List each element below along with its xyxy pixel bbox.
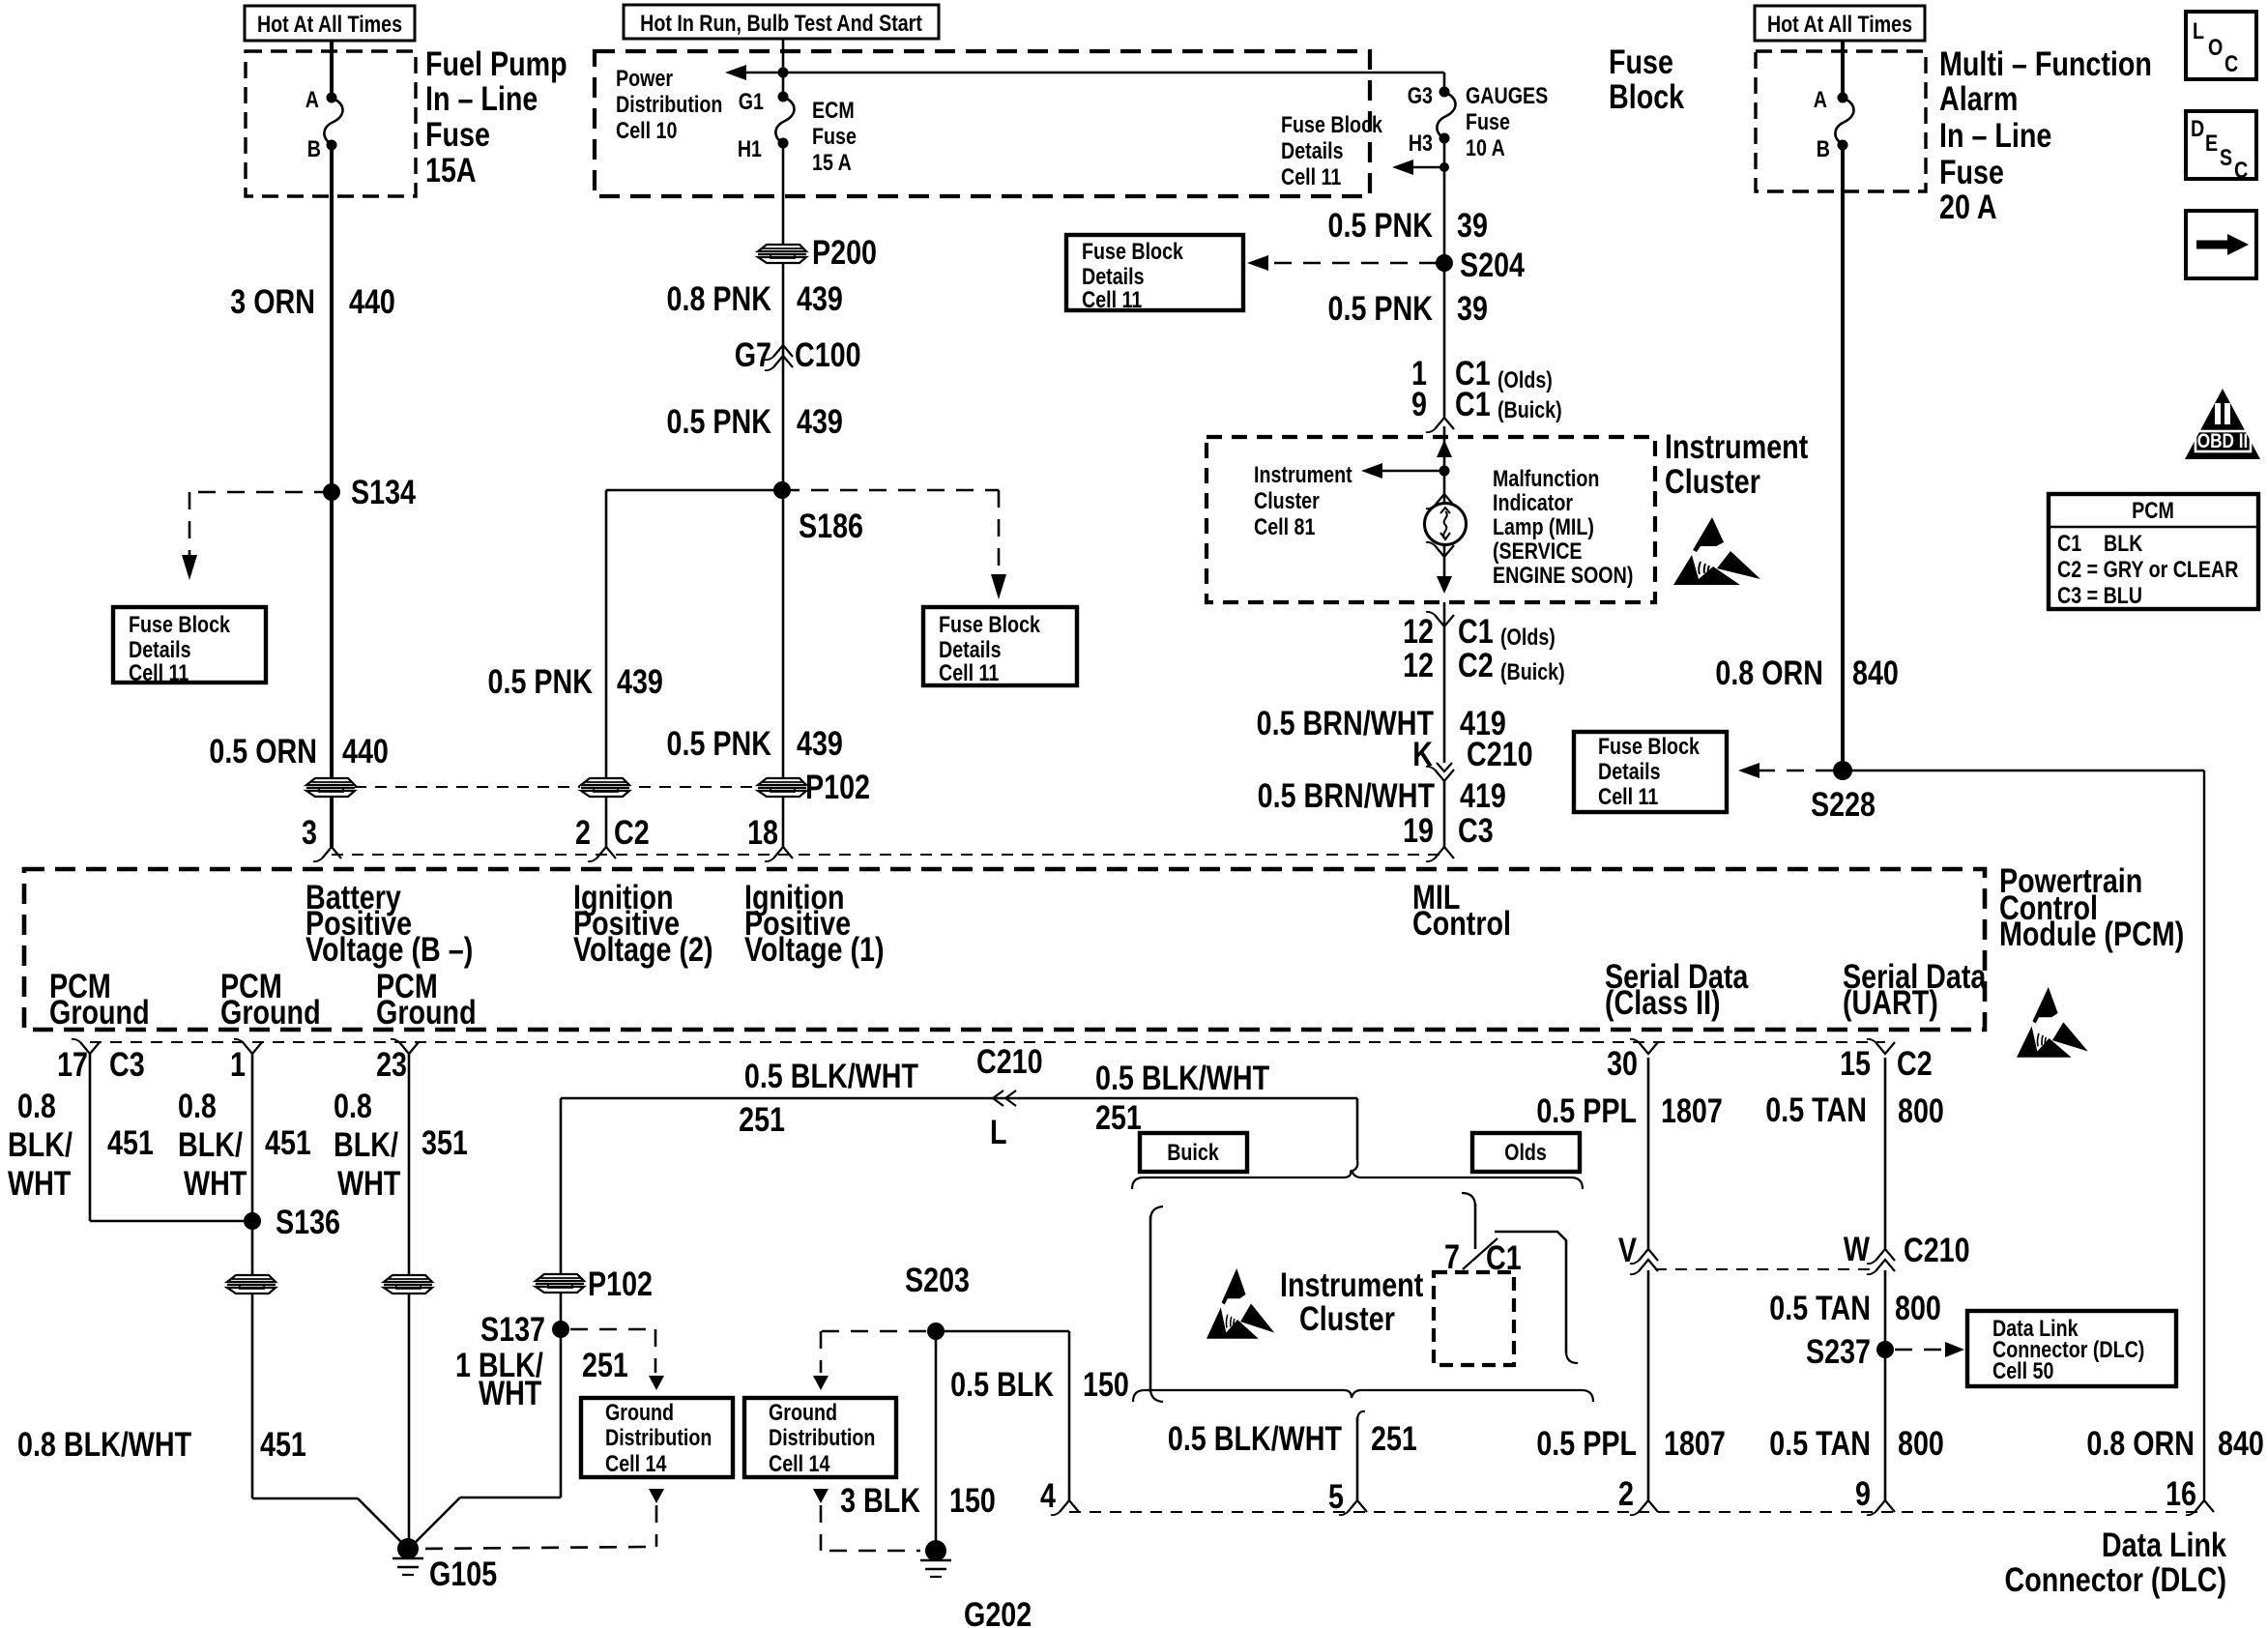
svg-text:439: 439 — [617, 662, 663, 700]
label 0.5 PNK 39 (upper) — [1328, 206, 1433, 244]
svg-text:ECM: ECM — [812, 97, 855, 123]
splice S203 — [927, 1323, 945, 1340]
label 0.5 TAN 800 (lower) — [1769, 1424, 1871, 1462]
power label box Hot In Run, Bulb Test And Start — [624, 5, 939, 39]
svg-text:0.5 BLK/WHT: 0.5 BLK/WHT — [744, 1057, 919, 1094]
svg-text:Data Link: Data Link — [2102, 1526, 2226, 1563]
component dashed box Instrument Cluster — [1207, 437, 1655, 602]
wire 440 from fuse F1 to PCM pin 3 — [330, 145, 334, 847]
svg-text:0.5 TAN: 0.5 TAN — [1769, 1289, 1871, 1326]
connector C1 pin 7 Olds — [1463, 1238, 1497, 1269]
svg-text:800: 800 — [1898, 1424, 1944, 1462]
svg-text:0.5 BRN/WHT: 0.5 BRN/WHT — [1258, 776, 1436, 814]
svg-text:BLK: BLK — [2104, 530, 2143, 556]
PCM pin 2 connector C2 — [596, 847, 616, 858]
svg-text:0.8: 0.8 — [178, 1087, 217, 1124]
label 0.8 BLK/WHT 451 col1 — [17, 1087, 56, 1124]
power label box Hot At All Times (left) — [245, 6, 415, 41]
label 0.5 PNK 39 (lower) — [1328, 289, 1433, 327]
splice S237 — [1876, 1341, 1894, 1358]
svg-text:P102: P102 — [588, 1265, 653, 1302]
svg-text:0.5 PNK: 0.5 PNK — [488, 662, 593, 700]
splice S134 — [323, 483, 340, 501]
PCM pin 18 connector — [773, 847, 793, 858]
wire 150 S203 to G202 — [935, 1331, 938, 1551]
fuse F2 element — [1835, 98, 1853, 144]
connector C210 pin K — [1437, 763, 1452, 771]
in-line connector P102 (top) — [757, 777, 807, 798]
wire feed into fuse F1 — [330, 41, 334, 97]
svg-text:H3: H3 — [1409, 130, 1433, 156]
svg-text:3 BLK: 3 BLK — [840, 1481, 920, 1519]
label Instrument Cluster (right of box) — [1665, 427, 1809, 465]
label Battery Positive Voltage (B-) — [305, 878, 401, 916]
svg-text:439: 439 — [797, 279, 843, 317]
svg-text:Ground: Ground — [49, 993, 150, 1031]
svg-text:3: 3 — [302, 813, 317, 851]
svg-text:Voltage (2): Voltage (2) — [573, 930, 713, 968]
svg-text:0.8 PNK: 0.8 PNK — [667, 279, 771, 317]
connector C100 pin G7 — [773, 345, 793, 357]
label PCM Ground 1 — [49, 967, 111, 1004]
splice S204 — [1436, 254, 1453, 272]
arrow to Power Distribution — [739, 72, 783, 74]
connector row dashed line PCM top — [332, 854, 1444, 856]
fuse GAUGES element — [1437, 92, 1455, 138]
wire 439 branch to pin 2 C2 — [606, 489, 782, 492]
svg-text:S237: S237 — [1806, 1332, 1871, 1370]
svg-text:0.5 TAN: 0.5 TAN — [1769, 1424, 1871, 1462]
svg-text:Hot At All Times: Hot At All Times — [257, 11, 402, 37]
svg-text:WHT: WHT — [8, 1164, 72, 1202]
label Ignition Positive Voltage (1) — [744, 878, 845, 916]
connector C210 pin L — [993, 1090, 1003, 1106]
svg-text:ENGINE SOON): ENGINE SOON) — [1493, 562, 1633, 588]
svg-text:C2: C2 — [1897, 1044, 1933, 1082]
variant box Buick — [1140, 1133, 1247, 1172]
svg-text:39: 39 — [1457, 289, 1488, 327]
svg-text:Cluster: Cluster — [1299, 1299, 1395, 1337]
label 0.5 PNK 439 (upper) — [667, 402, 771, 440]
reference box Fuse Block Details Cell 11 (left) — [113, 607, 266, 683]
svg-text:G3: G3 — [1408, 82, 1433, 108]
wire 840 to DLC pin 16 — [1843, 770, 2204, 771]
reference box Data Link Connector DLC Cell 50 — [1967, 1311, 2176, 1386]
label 0.8 BLK/WHT 451 col2 — [178, 1087, 217, 1124]
label 0.5 PNK 439 (lower) — [667, 724, 771, 762]
svg-text:Cluster: Cluster — [1254, 487, 1320, 513]
svg-text:Lamp (MIL): Lamp (MIL) — [1493, 513, 1594, 539]
ground G202 — [925, 1540, 946, 1561]
reference box Ground Distribution Cell 14 (1) — [581, 1398, 733, 1477]
svg-text:Fuse Block: Fuse Block — [939, 611, 1041, 637]
reference dashed S203 to Ground Distribution 2 — [821, 1330, 926, 1333]
svg-text:P102: P102 — [805, 768, 870, 805]
junction to details arrow — [1439, 162, 1449, 172]
svg-text:C1: C1 — [1458, 612, 1494, 650]
splice S137 — [552, 1321, 569, 1338]
label 0.8 PNK 439 — [667, 279, 771, 317]
svg-text:Cell 11: Cell 11 — [1281, 163, 1341, 189]
wire Olds variant link — [1495, 1232, 1566, 1353]
svg-text:Block: Block — [1609, 77, 1684, 115]
reference box Ground Distribution Cell 14 (2) — [744, 1398, 896, 1477]
svg-text:0.8: 0.8 — [17, 1087, 56, 1124]
svg-text:0.8 ORN: 0.8 ORN — [2086, 1424, 2195, 1462]
svg-text:BLK/: BLK/ — [8, 1125, 73, 1163]
svg-text:Instrument: Instrument — [1254, 461, 1352, 487]
svg-text:Cluster: Cluster — [1665, 462, 1760, 500]
label 0.5 BLK/WHT 251 (right of C210) — [1095, 1059, 1270, 1096]
svg-text:PCM: PCM — [2132, 497, 2174, 523]
svg-text:0.5 PPL: 0.5 PPL — [1536, 1424, 1637, 1462]
svg-text:G7: G7 — [735, 335, 771, 373]
svg-text:150: 150 — [949, 1481, 996, 1519]
svg-text:Ground: Ground — [769, 1399, 837, 1425]
svg-text:351: 351 — [422, 1123, 468, 1161]
reference dashed S237 to DLC box — [1895, 1349, 1943, 1352]
label 0.8 BLK/WHT 451 (lower) — [17, 1425, 192, 1463]
svg-text:15 A: 15 A — [812, 149, 852, 175]
label 3 BLK 150 — [840, 1481, 920, 1519]
svg-text:Fuse Block: Fuse Block — [1281, 111, 1383, 137]
svg-text:Instrument: Instrument — [1665, 427, 1809, 465]
wire 800 UART serial data — [1884, 1058, 1887, 1249]
svg-text:150: 150 — [1083, 1365, 1129, 1403]
svg-text:A: A — [305, 86, 319, 112]
wire into MIL lamp — [1443, 426, 1446, 504]
svg-text:5: 5 — [1328, 1477, 1344, 1515]
svg-text:0.5 PNK: 0.5 PNK — [1328, 289, 1433, 327]
label Powertrain Control Module PCM — [1999, 861, 2142, 899]
wire 251 down to brace — [1356, 1098, 1359, 1160]
svg-text:Cell 11: Cell 11 — [129, 659, 189, 685]
fuse F2 terminal A — [1838, 93, 1848, 103]
label 0.5 TAN 800 (middle) — [1769, 1289, 1871, 1326]
connector chevron above lamp — [1435, 494, 1454, 506]
label GAUGES Fuse 10 A — [1466, 82, 1548, 108]
variant box Olds — [1472, 1133, 1580, 1172]
svg-text:9: 9 — [1411, 385, 1427, 422]
svg-text:L: L — [990, 1113, 1007, 1150]
svg-text:Details: Details — [1598, 758, 1661, 784]
label 3 ORN 440 — [230, 282, 315, 320]
wire 439 from ECM fuse down — [782, 143, 785, 847]
ESD symbol instrument cluster lower — [1207, 1268, 1274, 1339]
svg-text:Fuse: Fuse — [1609, 43, 1673, 80]
label 0.8 BLK/WHT 351 col3 — [334, 1087, 372, 1124]
svg-text:0.5 BLK/WHT: 0.5 BLK/WHT — [1168, 1419, 1343, 1457]
svg-text:840: 840 — [1852, 654, 1899, 691]
label Power Distribution Cell 10 — [616, 65, 673, 91]
label Ignition Positive Voltage (2) — [573, 878, 674, 916]
svg-text:WHT: WHT — [337, 1164, 401, 1202]
PCM pin 3 connector — [322, 847, 341, 858]
svg-text:C2: C2 — [614, 813, 650, 851]
svg-text:840: 840 — [2218, 1424, 2264, 1462]
svg-text:Fuse: Fuse — [1466, 108, 1510, 134]
svg-text:(Buick): (Buick) — [1497, 396, 1562, 422]
svg-text:Distribution: Distribution — [616, 91, 722, 117]
splice S186 — [773, 481, 791, 499]
label PCM Ground 2 — [220, 967, 282, 1004]
svg-text:Connector (DLC): Connector (DLC) — [2004, 1560, 2226, 1598]
grommet on wire 451 — [226, 1274, 276, 1294]
label 0.5 BLK/WHT 251 (to pin 5) — [1168, 1419, 1343, 1457]
svg-text:C3: C3 — [109, 1045, 145, 1083]
svg-text:251: 251 — [1095, 1098, 1142, 1136]
fuse ECM terminal H1 — [778, 138, 789, 149]
svg-text:439: 439 — [797, 724, 843, 762]
connector pin 12 C2 Buick — [1403, 646, 1434, 683]
svg-text:S203: S203 — [905, 1261, 970, 1298]
label Fuse Block — [1609, 43, 1673, 80]
svg-text:0.5 PPL: 0.5 PPL — [1536, 1091, 1637, 1129]
svg-text:0.8 ORN: 0.8 ORN — [1715, 654, 1823, 691]
OBD II symbol — [2185, 389, 2260, 459]
svg-text:C210: C210 — [976, 1042, 1043, 1080]
PCM pin 17 connector C3 — [80, 1042, 100, 1054]
svg-text:(SERVICE: (SERVICE — [1493, 538, 1583, 564]
svg-text:0.5 PNK: 0.5 PNK — [667, 724, 771, 762]
reference dashed S137 to Ground Distribution — [570, 1328, 655, 1331]
label ECM Fuse 15 A — [812, 97, 855, 123]
svg-text:(Olds): (Olds) — [1497, 366, 1553, 392]
svg-text:In – Line: In – Line — [1939, 116, 2051, 154]
component dashed box Fuse Block — [595, 51, 1370, 196]
svg-text:451: 451 — [265, 1123, 311, 1161]
arrow to Fuse Block Details box (left) — [182, 555, 197, 580]
arrow into Ground Distribution box 1 — [649, 1376, 664, 1390]
label Serial Data UART — [1843, 957, 1987, 995]
label Malfunction Indicator Lamp (MIL) (SERVICE ENGINE SOON) — [1493, 465, 1599, 491]
svg-text:12: 12 — [1403, 612, 1434, 650]
reference box Fuse Block Details Cell 11 (right) — [1574, 732, 1727, 812]
svg-text:0.5 BLK/WHT: 0.5 BLK/WHT — [1095, 1059, 1270, 1096]
svg-text:S137: S137 — [480, 1310, 545, 1348]
label Multi-Function Alarm In-Line Fuse 20 A — [1939, 44, 2152, 82]
label MIL Control — [1412, 878, 1460, 916]
power label box Hot At All Times (right) — [1755, 6, 1925, 41]
svg-text:WHT: WHT — [479, 1374, 542, 1411]
connector C210 pin W — [1875, 1249, 1895, 1261]
wire 251 serial data horizontal run — [561, 1097, 1357, 1100]
svg-text:W: W — [1844, 1230, 1871, 1267]
svg-text:15: 15 — [1840, 1044, 1871, 1082]
svg-text:1807: 1807 — [1661, 1091, 1723, 1129]
svg-text:G202: G202 — [964, 1595, 1032, 1628]
svg-text:7: 7 — [1444, 1237, 1460, 1275]
svg-text:Cell 10: Cell 10 — [616, 117, 677, 143]
svg-text:E: E — [2205, 130, 2218, 156]
label 0.5 TAN 800 (upper) — [1765, 1090, 1867, 1128]
fuse GAUGES terminal H3 — [1439, 133, 1450, 144]
svg-text:S136: S136 — [276, 1203, 340, 1240]
connector pin 1 C1 Olds — [1411, 354, 1427, 392]
svg-text:17: 17 — [57, 1045, 88, 1083]
arrow to Instrument Cluster Cell 81 — [1377, 470, 1444, 473]
svg-text:2: 2 — [575, 813, 591, 851]
legend box LOC — [2186, 12, 2256, 79]
label Instrument Cluster Cell 81 — [1254, 461, 1352, 487]
wire Buick variant — [1150, 1206, 1163, 1220]
fuse F2 terminal B — [1838, 140, 1848, 151]
svg-text:39: 39 — [1457, 206, 1488, 244]
reference box Fuse Block Details Cell 11 (upper) — [1066, 235, 1243, 310]
svg-text:0.5 BLK: 0.5 BLK — [950, 1365, 1054, 1403]
svg-text:Power: Power — [616, 65, 673, 91]
svg-text:P200: P200 — [812, 233, 877, 271]
connector pin 12 C1 Olds — [1435, 615, 1454, 626]
wire 150 S203 to DLC pin 4 — [936, 1330, 1069, 1333]
svg-text:C2 = GRY or CLEAR: C2 = GRY or CLEAR — [2057, 556, 2239, 582]
label Fuse Block Details Cell 11 (in fuse block) — [1281, 111, 1383, 137]
svg-text:(Class II): (Class II) — [1605, 983, 1721, 1021]
svg-text:Ground: Ground — [605, 1399, 674, 1425]
component dashed box Powertrain Control Module PCM — [24, 869, 1985, 1030]
svg-text:0.5 PNK: 0.5 PNK — [667, 402, 771, 440]
PCM pin 1 connector — [243, 1042, 262, 1054]
wire 840 from fuse F2 to S228 — [1841, 145, 1845, 770]
svg-text:C: C — [2234, 157, 2248, 183]
svg-text:BLK/: BLK/ — [178, 1125, 243, 1163]
fuse ECM element — [775, 97, 794, 143]
fuse GAUGES terminal G3 — [1439, 87, 1450, 98]
wire 1807 class II serial data — [1647, 1058, 1650, 1249]
bulkhead dashed line through grommets — [355, 786, 802, 788]
svg-text:Cell 11: Cell 11 — [939, 659, 999, 685]
svg-text:451: 451 — [260, 1425, 306, 1463]
svg-text:B: B — [307, 135, 321, 161]
svg-text:Module (PCM): Module (PCM) — [1999, 915, 2184, 952]
svg-text:23: 23 — [376, 1045, 407, 1083]
fuse F1 terminal A — [327, 93, 337, 103]
wire 39 from GAUGES fuse — [1443, 138, 1446, 418]
svg-text:Alarm: Alarm — [1939, 79, 2018, 117]
svg-text:Fuse: Fuse — [425, 115, 490, 153]
wire 351 pin 23 to G105 — [408, 1054, 411, 1547]
fuse F1 terminal B — [327, 140, 337, 151]
grommet on branch wire 439 — [580, 777, 630, 798]
label 0.5 BLK/WHT 251 (left of C210) — [744, 1057, 919, 1094]
svg-text:0.5 ORN: 0.5 ORN — [209, 732, 317, 770]
label 1 BLK/WHT 251 — [455, 1346, 543, 1383]
svg-text:419: 419 — [1460, 776, 1506, 814]
PCM pin 23 connector — [399, 1042, 419, 1054]
svg-text:251: 251 — [1371, 1419, 1417, 1457]
wire from Hot In Run into fuse block — [782, 39, 785, 97]
arrow out of Ground Distribution box 1 — [649, 1489, 664, 1503]
svg-text:0.8: 0.8 — [334, 1087, 372, 1124]
wire 451 pin 1 to G105 — [251, 1054, 254, 1498]
svg-text:251: 251 — [739, 1100, 785, 1138]
svg-text:800: 800 — [1898, 1091, 1944, 1129]
label 0.5 PNK 439 (branch) — [488, 662, 593, 700]
label 0.5 ORN 440 — [209, 732, 317, 770]
lamp MIL (Service Engine Soon) — [1425, 504, 1467, 545]
svg-text:1807: 1807 — [1664, 1424, 1726, 1462]
svg-text:H1: H1 — [738, 135, 762, 161]
label 0.5 PPL 1807 (upper) — [1536, 1091, 1637, 1129]
svg-text:4: 4 — [1040, 1476, 1056, 1514]
svg-text:C210: C210 — [1904, 1231, 1970, 1268]
svg-text:In – Line: In – Line — [425, 79, 538, 117]
svg-text:C100: C100 — [795, 335, 861, 373]
svg-text:Cell 11: Cell 11 — [1598, 783, 1658, 809]
svg-text:S186: S186 — [799, 507, 863, 544]
svg-text:Control: Control — [1412, 904, 1511, 942]
label Instrument Cluster (bottom) — [1280, 1265, 1424, 1303]
ESD symbol PCM — [2017, 987, 2088, 1058]
reference dashed line S186 to Fuse Block Details (mid) — [782, 489, 999, 492]
svg-text:G105: G105 — [429, 1555, 497, 1592]
reference dashed line S204 to Fuse Block Details box — [1259, 262, 1437, 265]
svg-text:Buick: Buick — [1167, 1139, 1219, 1165]
legend table PCM connector colors — [2049, 494, 2258, 609]
DLC pin 4 connector — [1060, 1500, 1079, 1512]
svg-text:1: 1 — [230, 1045, 246, 1083]
svg-text:GAUGES: GAUGES — [1466, 82, 1548, 108]
svg-text:Cell 14: Cell 14 — [769, 1450, 830, 1476]
alternative brace upper — [1132, 1177, 1344, 1189]
alternative brace lower — [1133, 1390, 1344, 1402]
PCM pin 30 connector — [1639, 1042, 1658, 1054]
label Fuel Pump In-Line Fuse 15A — [425, 44, 567, 82]
svg-text:Voltage (1): Voltage (1) — [744, 930, 885, 968]
svg-text:BLK/: BLK/ — [334, 1125, 398, 1163]
arrow into Ground Distribution box 2 — [813, 1376, 829, 1390]
ESD symbol instrument cluster — [1673, 517, 1760, 585]
label Serial Data Class II — [1605, 957, 1749, 995]
splice S228 — [1833, 761, 1852, 780]
label PCM Ground 3 — [376, 967, 438, 1004]
legend box arrow — [2186, 211, 2256, 278]
svg-text:30: 30 — [1607, 1044, 1638, 1082]
svg-text:Fuse Block: Fuse Block — [1598, 733, 1701, 759]
svg-text:A: A — [1814, 86, 1827, 112]
svg-text:12: 12 — [1403, 646, 1434, 683]
wire MIL control to PCM pin 19 — [1443, 602, 1446, 626]
svg-text:Fuse: Fuse — [812, 123, 857, 149]
svg-text:Hot At All Times: Hot At All Times — [1767, 11, 1912, 37]
svg-text:C2: C2 — [1458, 646, 1494, 683]
wire feed into fuse F2 — [1841, 41, 1845, 97]
svg-text:G1: G1 — [739, 88, 764, 114]
svg-text:20 A: 20 A — [1939, 188, 1997, 225]
svg-text:0.5 PNK: 0.5 PNK — [1328, 206, 1433, 244]
svg-text:C210: C210 — [1467, 735, 1533, 772]
in-line connector P102 (bottom) — [535, 1273, 585, 1294]
svg-text:Cell 14: Cell 14 — [605, 1450, 667, 1476]
svg-text:WHT: WHT — [184, 1164, 247, 1202]
in-line connector P200 — [757, 244, 807, 264]
svg-text:L: L — [2193, 17, 2204, 44]
label 0.5 BRN/WHT 419 (upper) — [1257, 704, 1435, 741]
svg-text:440: 440 — [349, 282, 395, 320]
grommet on wire 351 — [383, 1274, 433, 1294]
fuse F1 element — [324, 98, 342, 144]
ground G105 — [397, 1538, 419, 1559]
reference dashed line S134 to Fuse Block Details — [189, 491, 332, 494]
svg-text:V: V — [1618, 1231, 1638, 1268]
svg-text:C3: C3 — [1458, 811, 1494, 849]
svg-text:Instrument: Instrument — [1280, 1265, 1424, 1303]
fuse F1 dashed box Fuel Pump In-Line Fuse — [246, 51, 416, 196]
svg-text:(UART): (UART) — [1843, 983, 1938, 1021]
svg-text:Malfunction: Malfunction — [1493, 465, 1599, 491]
label 0.5 PPL 1807 (lower) — [1536, 1424, 1637, 1462]
DLC connector row dashed line — [1069, 1511, 2204, 1513]
